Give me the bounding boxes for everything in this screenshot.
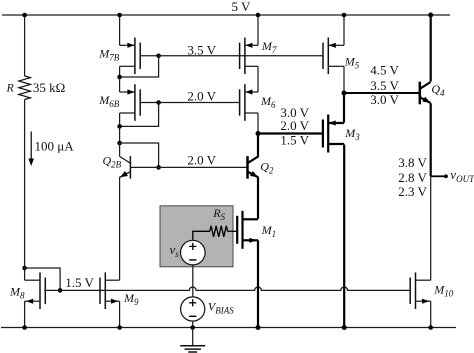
node junction dot M3/rail	[342, 325, 347, 330]
node label M1	[261, 223, 277, 239]
wire M7B source from rail	[119, 15, 121, 45]
wire M8 source to rail	[24, 301, 26, 327]
wire M6B gate lead	[140, 102, 158, 104]
resistor R 35k zigzag	[19, 76, 31, 100]
wire ground bottom rail	[1, 327, 456, 329]
node label M6	[260, 94, 276, 110]
node label vs	[170, 242, 180, 259]
node label Q2B	[103, 153, 122, 169]
node value 100 uA	[35, 139, 75, 154]
wire vOUT stub	[431, 175, 446, 177]
wire M6 drain down to node A	[257, 113, 259, 132]
wire vOUT down to M10 drain	[430, 176, 432, 280]
node junction dot node A	[256, 131, 261, 136]
node label M7B	[98, 47, 120, 63]
node label M7	[261, 39, 277, 55]
wire M6B gate-drain loop	[120, 103, 159, 127]
wire Q2 emitter down to M1 drain	[257, 177, 259, 219]
wire M7 source from rail	[257, 15, 259, 45]
node label M8	[9, 285, 25, 301]
wire VBIAS to ground rail	[192, 321, 194, 327]
wire M5 source from rail	[343, 15, 345, 45]
wire 2.0V base line Q2B to Q2	[130, 166, 247, 168]
wire gate bias line M8-M9-M10 with crossover hops	[44, 287, 410, 290]
svg-text:2.3 V: 2.3 V	[398, 184, 427, 199]
svg-text:100 μA: 100 μA	[35, 139, 75, 154]
node source network box (gray)	[160, 206, 233, 267]
svg-text:2.0 V: 2.0 V	[280, 118, 309, 133]
node label Q4	[431, 82, 445, 98]
node value 1.5 V (node A)	[280, 132, 309, 147]
node value 3.0 V (node A)	[280, 105, 309, 120]
node current arrow 100uA	[28, 132, 34, 167]
svg-text:R: R	[6, 81, 15, 95]
node label R	[6, 81, 15, 95]
svg-text:3.0 V: 3.0 V	[370, 92, 399, 107]
wire vs to Rs	[193, 231, 210, 240]
node value 2.0 V (node A)	[280, 118, 309, 133]
wire M3 drain down to rail	[343, 145, 345, 328]
wire 3.5V gate line M7B to M7/M5	[159, 55, 323, 57]
wire Q2B collector stub	[119, 143, 121, 156]
node value 2.8 V	[398, 170, 427, 185]
node junction dot M6B drain	[117, 124, 122, 129]
node junction dot M6B gate	[156, 100, 161, 105]
wire Q4 emitter down to vOUT	[430, 103, 432, 176]
wire M1 source down to rail	[257, 240, 259, 327]
node junction dot M10/rail	[428, 325, 433, 330]
wire M8 gate-drain loop	[25, 268, 61, 290]
node junction dot M8 gate	[58, 288, 63, 293]
node label vOUT	[450, 167, 474, 184]
wire M9 drain up to Q2B emitter	[119, 177, 121, 280]
node junction dot Q2B base	[156, 165, 161, 170]
node junction dot VBIAS/rail	[190, 325, 195, 330]
node value 2.3 V	[398, 184, 427, 199]
svg-text:1.5 V: 1.5 V	[280, 132, 309, 147]
node junction dot rail/M5	[342, 13, 347, 18]
svg-text:2.0 V: 2.0 V	[187, 89, 216, 104]
transistor M5 (PMOS)	[323, 38, 344, 75]
node label M6B	[98, 93, 120, 109]
node label M5	[344, 54, 360, 70]
transistor M10 (NMOS)	[410, 272, 431, 309]
node value 4.5 V	[370, 62, 399, 77]
svg-text:3.5 V: 3.5 V	[187, 43, 216, 58]
transistor Q2B (diode-connected NPN)	[120, 156, 131, 179]
wire node B to Q4 base (thick)	[344, 92, 420, 94]
transistor M9 (NMOS current mirror)	[100, 272, 120, 309]
node value 3.5 V (node B)	[370, 78, 399, 93]
transistor M6B (diode-connected PMOS)	[120, 84, 141, 121]
wire M3 source from node B	[343, 93, 345, 123]
svg-text:3.8 V: 3.8 V	[398, 155, 427, 170]
svg-text:35 kΩ: 35 kΩ	[33, 80, 65, 95]
node label Rs	[212, 206, 225, 222]
transistor Q4 (NPN output)	[420, 82, 431, 105]
node value 2.0 V (Q2 base)	[187, 153, 216, 168]
node junction dot M1 source/rail	[256, 325, 261, 330]
wire M5 drain down to node B	[343, 66, 345, 93]
wire M10 source to rail	[430, 301, 432, 327]
wire M6B source from M7B drain	[119, 77, 121, 92]
resistor Rs zigzag	[210, 226, 228, 237]
node label M10	[433, 283, 454, 299]
node vOUT terminal dot	[444, 174, 448, 178]
svg-text:2.8 V: 2.8 V	[398, 170, 427, 185]
node junction dot M7B drain	[117, 75, 122, 80]
node label VBIAS	[208, 300, 234, 316]
svg-text:4.5 V: 4.5 V	[370, 62, 399, 77]
node value 2.0 V (M6 gate)	[187, 89, 216, 104]
node label M3	[344, 126, 360, 142]
transistor M1 (NMOS input device)	[237, 211, 258, 249]
wire vs bottom to VBIAS top	[192, 265, 194, 297]
svg-text:2.0 V: 2.0 V	[187, 153, 216, 168]
node 5V label	[232, 0, 252, 14]
wire Rs to M1 gate	[228, 230, 238, 232]
wire left branch top (rail to R)	[24, 15, 26, 76]
node junction dot rail/left branch	[22, 13, 27, 18]
node junction dot M9 source/rail	[117, 325, 122, 330]
transistor M7 (PMOS)	[240, 38, 258, 75]
source vs (signal source circle)	[181, 240, 206, 265]
node label Q2	[260, 160, 274, 176]
wire M7 drain to M6 source	[257, 66, 259, 92]
transistor M6 (PMOS)	[240, 84, 258, 121]
wire Q4 collector from rail (thick)	[430, 15, 432, 82]
node junction dot rail/M7	[256, 13, 261, 18]
wire M7B drain stub	[119, 66, 121, 77]
transistor Q2 (NPN)	[248, 156, 259, 179]
wire 5V top supply rail	[2, 14, 450, 16]
transistor M7B (diode-connected PMOS)	[120, 38, 141, 75]
wire M8 drain stub	[24, 268, 26, 280]
wire M9 source to rail	[119, 301, 121, 327]
node value 3.8 V	[398, 155, 427, 170]
wire M6B drain stub	[119, 113, 121, 126]
wire M6B drain to Q2B collector	[119, 126, 121, 143]
svg-text:5 V: 5 V	[232, 0, 252, 14]
wire 2.0V gate line M6B to M6	[159, 102, 240, 104]
transistor M8 (diode-connected NMOS)	[25, 272, 46, 309]
source VBIAS (dc source circle)	[181, 297, 205, 321]
node junction dot rail/M7B	[117, 13, 122, 18]
node junction dot M7B gate	[156, 54, 161, 59]
node value 3.5 V	[187, 43, 216, 58]
wire M7B gate-drain loop	[120, 56, 159, 77]
transistor M3 (PMOS)	[323, 115, 344, 153]
node value 35 kOhm	[33, 80, 65, 95]
node value 1.5 V	[65, 275, 94, 290]
wire node A to M3 gate (thick)	[258, 132, 323, 134]
svg-text:3.5 V: 3.5 V	[370, 78, 399, 93]
wire M7B gate lead	[140, 55, 158, 57]
wire Q2B base-collector loop	[120, 143, 159, 167]
node junction dot M8 drain	[22, 266, 27, 271]
node junction dot Q2B collector	[117, 141, 122, 146]
ground symbol	[180, 328, 205, 353]
node junction dot node B	[342, 91, 347, 96]
wire R bottom to M8 drain node	[24, 100, 26, 269]
svg-text:1.5 V: 1.5 V	[65, 275, 94, 290]
wire Q2 collector from node A	[257, 134, 259, 157]
node value 3.0 V (node B)	[370, 92, 399, 107]
node junction dot M8 source/rail	[22, 325, 27, 330]
node junction dot rail/Q4	[428, 13, 433, 18]
node label M9	[123, 291, 139, 307]
